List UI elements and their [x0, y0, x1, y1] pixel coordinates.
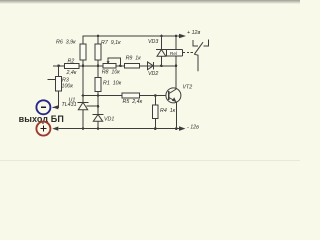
svg-text:R5 2,4к: R5 2,4к — [123, 99, 143, 105]
wire row3 — [83, 95, 166, 97]
wire relay dashed link — [183, 52, 194, 54]
node TL431 bottom — [82, 127, 85, 130]
svg-text:R6 3,9к: R6 3,9к — [56, 40, 76, 46]
resistor R6 — [80, 44, 86, 60]
node R8 wiper junction — [119, 65, 122, 68]
node R6 column row2 — [82, 65, 85, 68]
svg-text:2,4к: 2,4к — [66, 70, 77, 76]
resistor R7 — [95, 44, 101, 60]
svg-text:- 12в: - 12в — [187, 124, 199, 130]
svg-text:VD2: VD2 — [148, 71, 158, 77]
arrow -12V — [179, 126, 186, 131]
arrow +12V — [179, 34, 186, 39]
wire top rail +12V — [83, 36, 180, 44]
svg-text:R7 9,1к: R7 9,1к — [101, 40, 121, 46]
node R7 column row2 — [97, 65, 100, 68]
svg-text:100к: 100к — [62, 84, 74, 90]
svg-text:Rel: Rel — [170, 51, 177, 56]
resistor R3 — [53, 65, 59, 67]
resistor R2 — [65, 64, 80, 69]
svg-text:R2: R2 — [68, 59, 75, 65]
wire TL431 column — [82, 66, 84, 103]
potentiometer R8 — [103, 63, 116, 68]
svg-text:VD3: VD3 — [148, 39, 158, 45]
svg-text:R8 10к: R8 10к — [102, 70, 121, 76]
wire R7 top — [97, 36, 99, 44]
node rail R7 — [97, 35, 100, 38]
node junction R2/R3 — [57, 65, 60, 68]
resistor R5 — [122, 93, 140, 98]
svg-text:R1 10к: R1 10к — [103, 80, 122, 86]
svg-text:VT2: VT2 — [183, 84, 193, 90]
diode VD2 — [148, 62, 154, 70]
resistor R4 — [154, 94, 157, 97]
svg-text:TL431: TL431 — [62, 102, 77, 108]
node row3 left — [82, 94, 85, 97]
wire TL431 ref — [87, 105, 99, 107]
svg-text:R9 1к: R9 1к — [126, 55, 142, 61]
wire bottom rail — [58, 128, 180, 130]
wire R8 wiper — [108, 58, 120, 66]
terminal minus — [36, 100, 50, 114]
relay contact — [193, 40, 198, 46]
relay Rel coil — [175, 35, 178, 38]
wire R7 bottom — [97, 60, 99, 66]
wire R3 bottom to minus terminal — [53, 91, 59, 108]
resistor R1 — [97, 66, 99, 78]
resistor R9 — [125, 63, 140, 68]
wire row2 — [53, 65, 176, 67]
wire R6 bottom — [82, 60, 84, 66]
svg-text:+ 12в: + 12в — [187, 30, 200, 36]
diode VD1 — [97, 96, 99, 115]
terminal plus — [36, 122, 50, 136]
svg-text:R4 1к: R4 1к — [160, 108, 176, 114]
svg-text:VD1: VD1 — [104, 116, 114, 122]
